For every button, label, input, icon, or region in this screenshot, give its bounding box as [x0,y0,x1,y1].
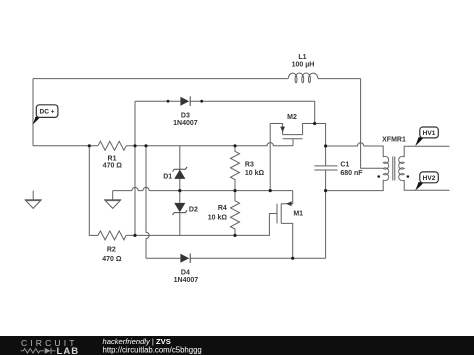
diode D4 cathode bar [189,253,191,263]
terminal dot D3 right [200,100,203,103]
wire: R2 branch vertical from row C down to row E [89,146,98,236]
wire: top DC+ rail row A [33,78,361,80]
junction dot C1 bottom [324,189,327,192]
zener D2 body [174,203,185,212]
svg-text:1N4007: 1N4007 [174,277,199,284]
phase dot secondary [407,175,410,178]
M2 source arrow [280,127,285,133]
svg-text:10 kΩ: 10 kΩ [208,215,228,222]
wire: secondary top lead to HV1 [404,146,449,157]
svg-text:C1: C1 [340,161,349,168]
transformer XFMR1 secondary coil [399,156,405,180]
transformer XFMR1 core [393,157,395,181]
zener D1 body [174,170,185,179]
callout DC+ [33,105,58,125]
junction dot M1 drain at row F [291,257,294,260]
junction dot M2 source at ground row [269,189,272,192]
junction dot R3/R4 ground [233,189,236,192]
junction dot vertical1 row E [133,234,136,237]
junction dot R1/R2 branch [88,144,91,147]
resistor R2 [98,231,126,240]
transformer XFMR1 primary coil [383,156,389,180]
zener D1 cathode bar with wings [173,167,188,172]
svg-text:680 nF: 680 nF [340,170,363,177]
svg-text:1N4007: 1N4007 [173,120,198,127]
ground 2 (connected to mid row) [104,191,121,209]
wire: C1 top node to transformer primary top with hop over L1 wire [326,143,384,157]
junction dot C1 top [324,144,327,147]
wire: L1 down to transformer center tap [361,79,383,169]
svg-text:HV2: HV2 [423,175,436,182]
wire: M2 drain to C1 top corner [315,124,326,147]
junction dot R3 top [233,144,236,147]
wire: row C left (DC+ to R1) [33,145,98,147]
svg-text:R3: R3 [245,162,254,169]
diode D3 cathode bar [189,96,191,106]
wire: row F (D4 row) [146,257,326,259]
wire: left vertical DC+ to row C [32,79,34,146]
svg-text:D2: D2 [189,206,198,213]
terminal dot D3 left [167,100,170,103]
mosfet M2 body [270,124,315,146]
svg-text:100 µH: 100 µH [292,62,315,69]
callout HV1 [415,127,438,146]
wire: C1 bottom node to primary bottom and down to row F [326,180,384,258]
svg-text:R1: R1 [108,156,117,163]
wire: row B (D3 feedback row) with corner down to M2 drain [135,101,315,123]
svg-text:D1: D1 [163,173,172,180]
svg-text:XFMR1: XFMR1 [382,136,406,143]
wire: vertical2 from row C, hop over row E, to row F corner [146,146,149,258]
wire: M2 source vertical down to ground row [269,124,271,191]
svg-text:HV1: HV1 [423,130,436,137]
svg-text:M2: M2 [287,114,297,121]
junction dot D1-D2 ground [178,189,181,192]
resistor R3 [231,146,240,191]
wire: secondary bottom lead to HV2 [404,180,449,190]
wire: row E (M1 gate row) and gate lead up [126,214,277,236]
mosfet M1 body [277,191,293,259]
svg-text:10 kΩ: 10 kΩ [245,170,265,177]
junction dot R4 bottom [233,234,236,237]
svg-text:D3: D3 [181,113,190,120]
logo resistor-diode glyph [21,348,56,354]
junction dot vertical1 row C [133,144,136,147]
inductor L1 [288,73,318,83]
junction dot vertical2 row C [144,144,147,147]
wire: vertical1 from row B through row C down to row E [134,101,136,235]
capacitor C1 [314,146,337,191]
junction dot M2 drain node [313,122,316,125]
svg-text:470 Ω: 470 Ω [103,163,123,170]
svg-text:D4: D4 [181,270,190,277]
footer bar [0,336,474,355]
resistor R4 [231,191,240,236]
svg-text:R4: R4 [218,205,227,212]
zener D2 cathode bar with wings [173,210,188,215]
diode D3 body [180,97,189,106]
resistor R1 [98,141,126,150]
zener D2 vertical wire [179,191,181,236]
M1 source arrow [286,201,292,206]
ground 1 (floating, left) [25,191,42,209]
phase dot primary [377,175,380,178]
callout HV2 [415,172,438,190]
wire: mid ground row with hops over vertical1 and vertical2 [113,187,293,190]
svg-text:M1: M1 [293,211,303,218]
svg-text:R2: R2 [107,246,116,253]
zener D1 vertical wire [179,146,181,191]
svg-text:470 Ω: 470 Ω [102,256,122,263]
svg-text:DC +: DC + [40,109,55,116]
diode D4 body [180,254,189,263]
wire: row C right of R1 to M2 gate with hop over M2 source line [126,143,293,146]
svg-text:L1: L1 [298,54,306,61]
